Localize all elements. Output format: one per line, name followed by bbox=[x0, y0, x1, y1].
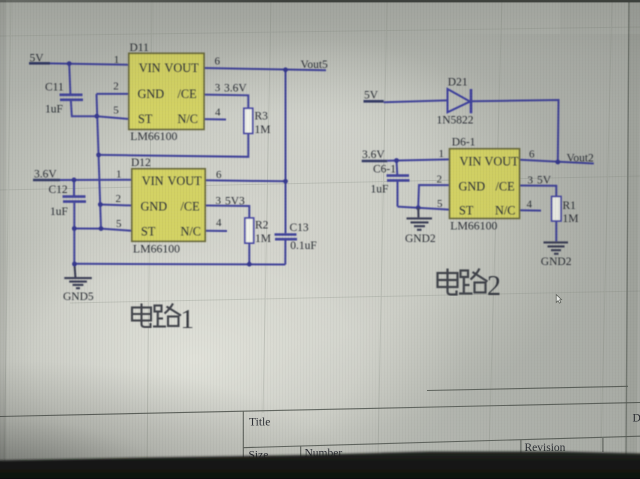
wire D11 pin6 to Vout5 bbox=[204, 68, 326, 70]
wire 3.6V to D6-1 pin1 bbox=[387, 159, 449, 160]
wire D11 pin2 bbox=[97, 93, 129, 95]
mouse cursor bbox=[556, 295, 561, 304]
node 电路1 caption bbox=[132, 304, 181, 328]
junction C11/ST D11 bbox=[94, 114, 99, 119]
IC D11 (LM66100) body bbox=[129, 53, 204, 129]
wire 3.6V to D12 pin1 bbox=[60, 179, 132, 181]
wire C13 top stem bbox=[285, 181, 287, 233]
junction GND5 / rail bbox=[72, 262, 77, 267]
junction C12 / 3.6V bbox=[72, 178, 77, 183]
junction C12 bottom / ST wire bbox=[72, 226, 77, 231]
wire C12 bottom stem bbox=[73, 203, 75, 229]
wire D6-1 pin6 to Vout2 bbox=[520, 160, 594, 164]
wire Vout5 vertical to D12 pin6 bbox=[285, 70, 287, 182]
IC D12 (LM66100) body bbox=[132, 169, 205, 242]
diode D21 triangle bbox=[448, 89, 471, 112]
power port 5V (circuit 2) bar bbox=[364, 100, 384, 103]
wire D12 pin6 to Vout5 vertical bbox=[205, 180, 285, 181]
wire C11 top stem bbox=[69, 64, 70, 94]
junction R2 bottom / gnd rail bbox=[247, 262, 252, 267]
wire C6-1 bottom stem bbox=[397, 182, 399, 207]
ground GND2 (right, under R1) bbox=[544, 242, 569, 253]
junction gnd bus / R3 wire bbox=[96, 153, 101, 158]
junction Vout2 / D21 bbox=[555, 160, 560, 165]
power port 3.6V (circuit 1) bar bbox=[33, 179, 60, 182]
wire C11 bottom stem bbox=[71, 101, 97, 116]
wire R1 bottom to GND2 bbox=[555, 221, 557, 241]
wire D6-1 pin3 to R1 bbox=[520, 186, 557, 197]
wire D6-1 pin5/ST bbox=[398, 207, 450, 210]
power port 3.6V (circuit 2) bar bbox=[362, 160, 388, 163]
junction D12 pin6 / C13 bbox=[283, 179, 288, 184]
junction C6-1 / 3.6V bbox=[394, 158, 399, 163]
wire C13 bottom stem bbox=[284, 240, 286, 264]
wire 5V to D21 anode bbox=[384, 100, 448, 102]
bottom bezel black strip bbox=[0, 452, 640, 479]
wire D11 pin3 to R3 bbox=[204, 95, 248, 109]
schematic text bbox=[30, 42, 595, 303]
junction Vout5 bbox=[283, 67, 288, 72]
wire D6-1 pin4 stub bbox=[520, 209, 542, 211]
IC D6-1 (LM66100) body bbox=[450, 149, 520, 219]
resistor R3 bbox=[244, 108, 253, 133]
wire D21 cathode to Vout2 vertical bbox=[471, 100, 559, 162]
wire D12 pin4 stub bbox=[205, 230, 227, 232]
ground GND5 bbox=[64, 264, 92, 288]
capacitor C12 plates bbox=[63, 195, 86, 198]
wire C12 junction down to gnd rail bbox=[73, 229, 75, 264]
TITLEBLOCK bbox=[0, 386, 640, 459]
wire C12 top stem bbox=[73, 180, 75, 196]
node 电路2 caption bbox=[438, 269, 488, 295]
capacitor C11 plates bbox=[60, 94, 83, 97]
ground GND2 (left, circuit 2) bbox=[407, 208, 433, 230]
resistor R1 bbox=[552, 197, 561, 222]
wire D12 pin2 bbox=[100, 205, 132, 206]
sheet right border + outside-sheet darker bbox=[626, 2, 629, 461]
wire D12 pin5/ST to C12 junction bbox=[74, 229, 132, 231]
wire C6-1 top stem bbox=[396, 161, 399, 175]
wire gnd vertical bus (D11 pin2 to D12 pin5) bbox=[97, 94, 102, 229]
power port 5V (circuit 1) bar bbox=[29, 62, 50, 65]
wire gnd rail bottom (circuit 1) bbox=[74, 263, 285, 266]
wire R2 bottom bbox=[248, 243, 250, 264]
wire 5V to D11 pin1 bbox=[50, 63, 129, 64]
wire D12 pin3 to R2 bbox=[205, 206, 249, 219]
wire D11 pin4 stub bbox=[204, 118, 226, 120]
junction gnd bus / D12 pin5 bbox=[99, 226, 104, 231]
resistor R2 bbox=[245, 218, 254, 243]
wire R3 bottom to gnd bus bbox=[99, 133, 249, 156]
diode D21 cathode bar bbox=[470, 89, 473, 113]
capacitor C6-1 plates bbox=[387, 174, 410, 177]
junction D6-1 pin2/pin5/GND2 bbox=[416, 205, 421, 210]
top hairline bbox=[0, 0, 640, 2]
capacitor C13 plates bbox=[275, 233, 297, 236]
junction C11/5V bbox=[67, 61, 72, 66]
wire D6-1 pin2 bbox=[418, 185, 449, 208]
wire D11 pin5 bbox=[97, 116, 129, 119]
junction gnd bus / D12 pin2 bbox=[98, 202, 103, 207]
bottom-left corner vignette bbox=[0, 360, 360, 479]
